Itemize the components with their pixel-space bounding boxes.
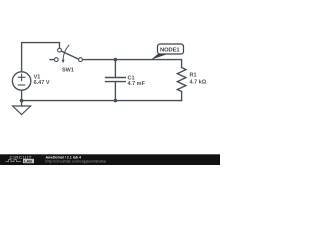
svg-text:4.7 mF: 4.7 mF bbox=[128, 81, 146, 87]
svg-text:LAB: LAB bbox=[24, 159, 32, 163]
svg-text:NODE1: NODE1 bbox=[160, 47, 180, 53]
svg-text:SW1: SW1 bbox=[62, 67, 74, 73]
svg-text:4.7 kΩ: 4.7 kΩ bbox=[190, 79, 207, 85]
svg-text:http://circuitlab.com/crgqkcn/: http://circuitlab.com/crgqkcn/lahaha bbox=[46, 160, 106, 164]
svg-text:6.47 V: 6.47 V bbox=[34, 80, 50, 86]
svg-text:R1: R1 bbox=[190, 73, 197, 79]
